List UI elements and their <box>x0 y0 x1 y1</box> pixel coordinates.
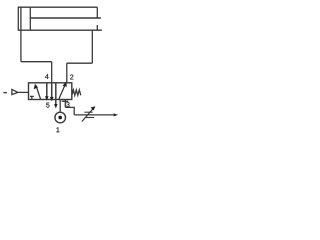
cylinder body top edge <box>18 6 98 8</box>
wire: port 3 to throttle <box>65 107 74 115</box>
port 3 stem <box>64 100 66 108</box>
label 3 <box>66 102 69 107</box>
throttle adjust arrow shaft <box>82 109 93 122</box>
pilot line into valve <box>18 91 29 93</box>
cylinder A1 body left edge <box>17 7 19 30</box>
label 1 <box>56 127 59 132</box>
arrowhead left box vertical A (down) <box>45 96 49 100</box>
wire: cylinder right port down <box>91 30 93 63</box>
compressed air source circle <box>55 112 66 123</box>
valve left box blocked port T <box>30 96 34 99</box>
arrowhead throttle adjust (up-right) <box>91 106 96 110</box>
valve arrow shaft B / port 4 passage <box>51 83 53 99</box>
label 2 <box>70 75 73 80</box>
throttle lower arc <box>86 117 94 119</box>
valve box divider / port 5 exhaust shaft <box>55 83 57 106</box>
valve right box diagonal arrow shaft <box>59 84 66 99</box>
throttle flow line <box>74 114 113 116</box>
throttle upper arc <box>84 111 92 113</box>
valve V1 body <box>29 83 72 100</box>
cylinder right end cap lower <box>96 25 98 30</box>
wire: down into valve port 2 <box>66 63 68 83</box>
cylinder right end cap upper <box>96 7 98 18</box>
label 4 <box>45 74 49 79</box>
wire: horizontal to port 2 <box>67 62 93 64</box>
spring return zigzag <box>72 90 81 96</box>
cylinder piston line 1 <box>20 7 22 30</box>
cylinder body bottom edge <box>18 29 102 31</box>
arrowhead right box diagonal (up into port 2) <box>63 82 67 87</box>
arrowhead left box diagonal (up) <box>34 84 38 89</box>
port 3 T bar <box>62 100 68 102</box>
label 5 <box>46 103 49 108</box>
arrowhead exhaust line (right) <box>114 113 118 116</box>
arrowhead port 5 exhaust (down) <box>54 104 58 108</box>
arrowhead arrow B (down) <box>50 97 54 101</box>
wire: down into valve port 4 <box>51 62 53 83</box>
wire: horizontal to port 4 <box>21 61 52 63</box>
valve left box diagonal arrow shaft <box>36 86 41 100</box>
wire: cylinder left port down <box>20 30 22 62</box>
source inner dot <box>58 116 62 120</box>
pilot dashed segment <box>3 92 7 94</box>
cylinder piston line 2 <box>29 7 31 30</box>
valve left box vertical arrow shaft A <box>46 83 48 98</box>
port 1 line to source <box>59 100 61 113</box>
pilot triangle <box>12 89 18 94</box>
cylinder piston rod <box>30 17 101 19</box>
